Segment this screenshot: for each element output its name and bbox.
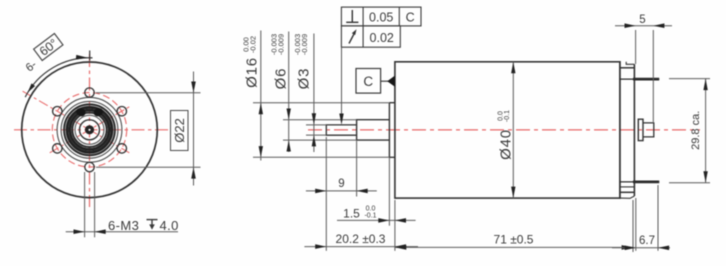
svg-text:-0.1: -0.1 (364, 213, 376, 220)
dim 22: boxed label (171, 111, 189, 151)
dim 5: arrows (625, 23, 636, 28)
arc arrow at top (76, 55, 88, 60)
dim D6: arrows (287, 109, 291, 120)
shaft circle r10 (80, 120, 100, 140)
dim 1.5: arrows (378, 218, 389, 223)
end cap top edge (620, 67, 635, 69)
shaft section D6 (357, 120, 390, 140)
dim D16: extension lines (253, 102, 389, 104)
perpendicularity symbol (346, 10, 358, 22)
datum leader (381, 80, 389, 82)
dim 71: arrows (395, 245, 406, 250)
dim 5: dimension line (615, 25, 672, 27)
dim 22: extension line top (96, 92, 201, 94)
mounting hole lower-left (53, 144, 62, 153)
bearing ring r14 (75, 115, 104, 144)
svg-text:1.5: 1.5 (343, 207, 360, 221)
end cap face (633, 64, 635, 196)
end cap top step (626, 62, 634, 65)
dim D16: dimension line (260, 31, 262, 161)
dim 1.5: dimension line (337, 219, 416, 221)
svg-text:5: 5 (639, 14, 645, 26)
dim 22: arrow bottom (191, 167, 196, 178)
svg-text:9: 9 (338, 178, 344, 190)
dim 1.5: extension line left (388, 157, 390, 225)
diagonal centerline 30deg (50, 107, 130, 153)
mounting hole upper-right (117, 107, 126, 116)
extension line body face (394, 200, 396, 251)
dim 20.2: dimension line (304, 246, 418, 248)
datum triangle (387, 76, 395, 87)
svg-text:C: C (363, 74, 373, 89)
dim D6: dimension line (288, 32, 290, 153)
dim 22: dimension line (193, 72, 195, 186)
end cap bottom edge (620, 191, 635, 193)
dim 22: arrow top (191, 82, 196, 93)
dim 22: extension line bottom (96, 166, 201, 168)
arc arrow at lower-left end (28, 83, 36, 92)
svg-text:0.0: 0.0 (366, 206, 376, 213)
svg-text:20.2 ±0.3: 20.2 ±0.3 (336, 232, 386, 246)
FCF leader line (341, 47, 343, 114)
mounting hole lower-right (117, 144, 126, 153)
hub circle r32 (57, 97, 122, 162)
housing/cap joint line (619, 62, 621, 198)
dim 9: extension line right (356, 141, 358, 197)
dim D40: arrows (511, 62, 515, 73)
dim 71: dimension line (395, 246, 633, 248)
end cap bottom step (620, 196, 635, 198)
svg-text:-0.1: -0.1 (504, 110, 511, 122)
terminal bottom (620, 181, 659, 183)
feature control frame (341, 7, 421, 47)
bearing ring r17 (72, 113, 106, 147)
dim 29.8: extension lines (669, 78, 710, 80)
dim D16: arrows (259, 103, 263, 114)
svg-text:Ø6: Ø6 (273, 68, 290, 90)
svg-text:4.0: 4.0 (160, 218, 179, 233)
callout 6-M3 arrow left (74, 229, 85, 234)
bearing ring r20 (70, 110, 109, 149)
centerline horizontal (side view) (308, 129, 700, 131)
svg-text:6.7: 6.7 (639, 235, 655, 247)
dim 5: extension lines (635, 30, 637, 64)
dim 9: arrows (315, 189, 326, 194)
diagonal centerline 150deg with extension to arc (23, 91, 130, 153)
datum C box (356, 69, 381, 94)
mounting hole bottom (85, 162, 94, 171)
svg-text:Ø3: Ø3 (296, 68, 313, 90)
mounting hole top (85, 88, 94, 97)
svg-text:-0.009: -0.009 (300, 34, 309, 55)
svg-text:71 ±0.5: 71 ±0.5 (494, 233, 534, 247)
runout symbol (349, 32, 355, 44)
dim 6.7: extension line right (terminal end) (657, 185, 659, 251)
callout 6-M3 arrow right (95, 229, 106, 234)
dim D6: extension lines (283, 119, 357, 121)
shaft tip section D3 (326, 125, 356, 135)
dim 6.7: extension line left (cap face) (635, 198, 637, 251)
dim 20.2: arrows (315, 244, 326, 249)
centerline vertical (front view) (89, 54, 91, 207)
angular dimension arc 60deg (25, 58, 92, 97)
dim 6.7: arrows (625, 246, 636, 251)
dim D3: arrows (312, 113, 316, 124)
FCF leader arrow (339, 114, 343, 125)
hub circle r28 (61, 101, 118, 158)
thread projection line right (94, 172, 96, 237)
rear shaft stub (643, 123, 654, 137)
label 60deg box (34, 34, 64, 61)
dim D40: dimension line (512, 62, 514, 198)
bearing ring r22 (67, 107, 112, 152)
svg-text:-0.02: -0.02 (249, 36, 258, 53)
svg-text:Ø22: Ø22 (172, 118, 187, 143)
thread projection line left (84, 172, 86, 237)
dim 9: dimension line (306, 190, 377, 192)
dim D3: dimension line (313, 34, 315, 153)
dim 20.2: extension line left (shaft tip) (325, 137, 327, 251)
end cap bottom inner line (620, 186, 635, 188)
svg-text:Ø16: Ø16 (243, 57, 260, 88)
depth symbol (147, 220, 158, 226)
mounting hole upper-left (53, 107, 62, 116)
pilot boss D16 (389, 103, 395, 158)
dim 29.8: dimension line (705, 79, 707, 183)
callout 6-M3 leader line (66, 231, 178, 233)
dim D3: extension lines (306, 124, 326, 126)
svg-text:60°: 60° (37, 36, 61, 59)
bearing ring r25 (64, 104, 115, 155)
svg-text:29.8 ca.: 29.8 ca. (690, 111, 702, 150)
terminal top (620, 78, 659, 80)
dim 29.8: arrows (703, 79, 707, 90)
svg-text:Ø40: Ø40 (497, 129, 514, 160)
shaft center disc (85, 125, 94, 134)
svg-text:6-: 6- (24, 59, 40, 75)
arc tick at vertical centerline (89, 51, 91, 61)
svg-text:0.05: 0.05 (369, 11, 393, 25)
svg-text:0.02: 0.02 (370, 31, 394, 45)
dim 6.7: dimension line (612, 247, 670, 249)
lube wedge left (75, 107, 87, 118)
bolt circle (red dashed) (52, 93, 126, 167)
centerline horizontal (front view) (14, 129, 168, 131)
dim 71: extension line right (632, 200, 634, 252)
motor body housing (395, 62, 620, 198)
svg-text:C: C (406, 11, 415, 25)
lube wedge right (92, 107, 104, 118)
svg-text:-0.009: -0.009 (277, 34, 286, 55)
motor body outer circle (front view) (22, 62, 158, 198)
svg-text:6-M3: 6-M3 (108, 218, 139, 233)
bearing washer (638, 119, 643, 140)
